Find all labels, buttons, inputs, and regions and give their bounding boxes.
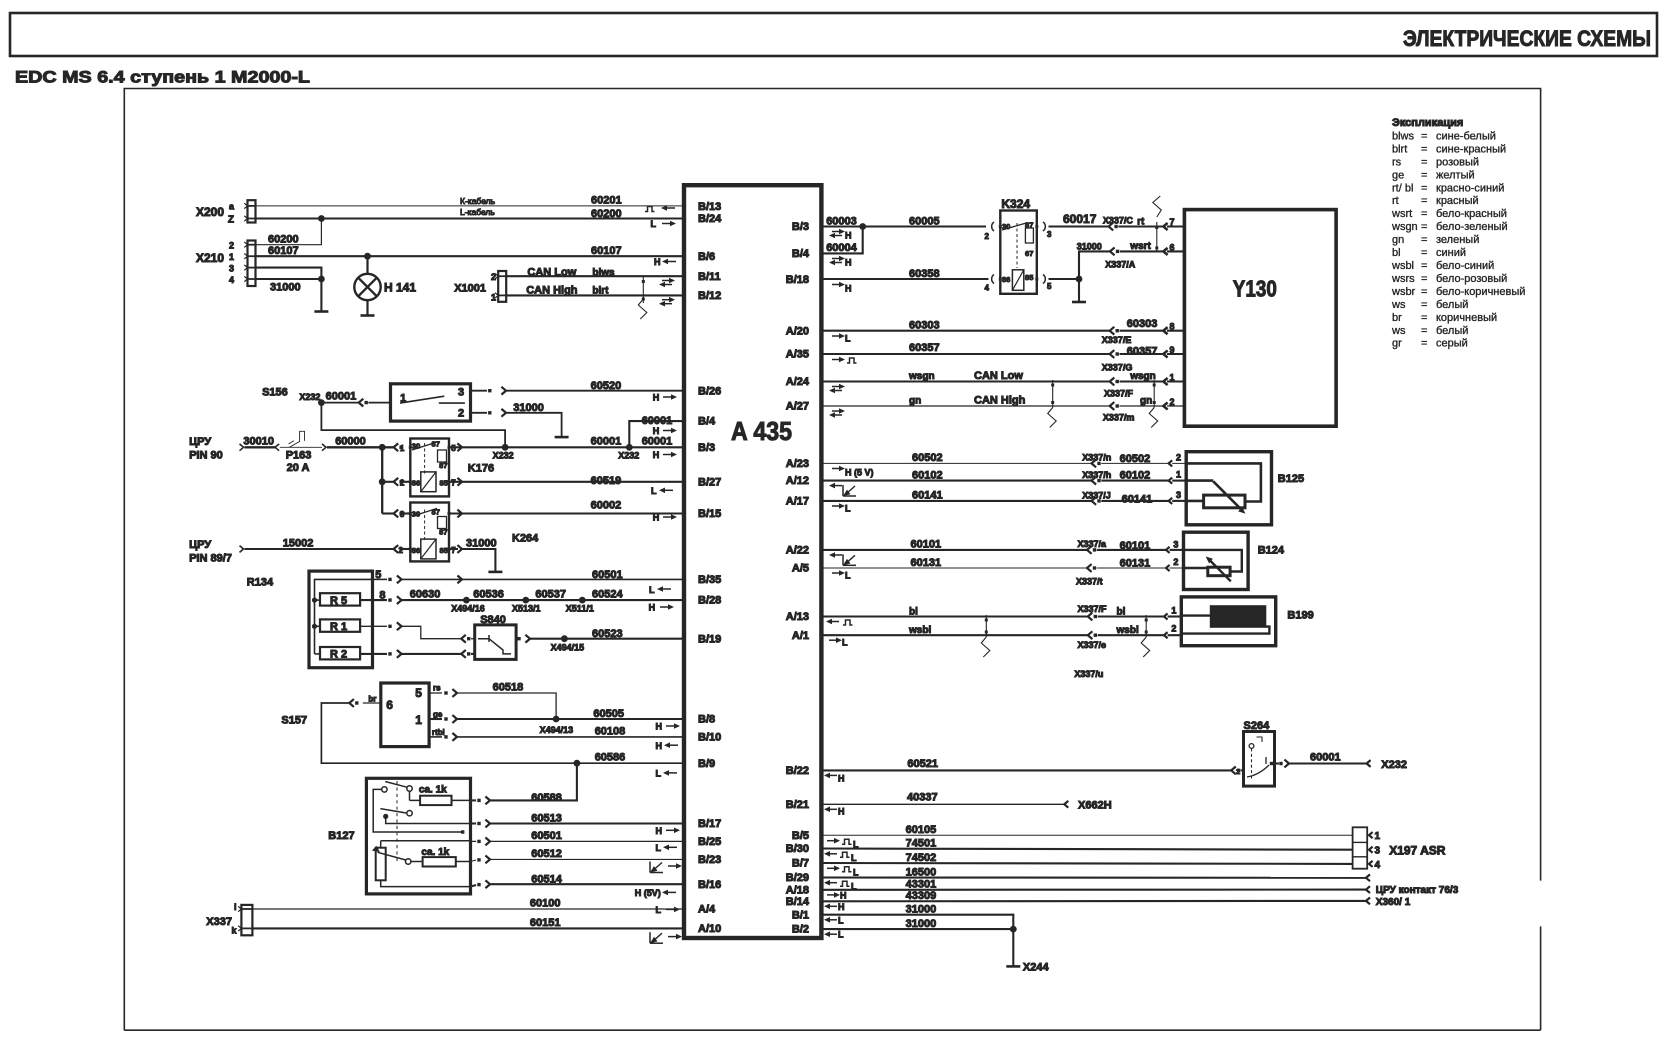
inline connector X337/e bbox=[1088, 631, 1093, 639]
svg-text:wsbl: wsbl bbox=[908, 625, 931, 636]
inline connector X337/n bbox=[1092, 459, 1097, 467]
svg-text:60536: 60536 bbox=[473, 589, 504, 601]
connector X210 bbox=[248, 241, 256, 287]
svg-text:R134: R134 bbox=[247, 577, 274, 589]
svg-text:blrt: blrt bbox=[592, 286, 609, 297]
svg-text:86: 86 bbox=[1002, 275, 1010, 284]
svg-text:K176: K176 bbox=[468, 463, 494, 475]
lamp H141 bbox=[354, 274, 380, 300]
svg-text:B/10: B/10 bbox=[698, 732, 721, 744]
wire 60588 B127 to node 60586 bbox=[471, 799, 477, 801]
svg-text:K324: K324 bbox=[1001, 197, 1030, 211]
svg-text:60502: 60502 bbox=[912, 452, 943, 464]
wire wsrt to Y130 pin 6 bbox=[1120, 250, 1164, 252]
svg-text:A/13: A/13 bbox=[786, 611, 809, 623]
svg-text:B/21: B/21 bbox=[786, 799, 809, 811]
svg-text:L: L bbox=[853, 867, 859, 877]
svg-text:wsbl: wsbl bbox=[1391, 260, 1414, 272]
heater B199 box bbox=[1181, 597, 1275, 646]
svg-text:B/16: B/16 bbox=[698, 879, 721, 891]
svg-text:EDC MS 6.4 ступень 1 M2000-L: EDC MS 6.4 ступень 1 M2000-L bbox=[15, 68, 310, 87]
signal icon B/30 right bbox=[830, 853, 837, 855]
svg-text:1: 1 bbox=[1170, 372, 1175, 382]
relay K324 coil bbox=[992, 275, 994, 284]
svg-text:wsbr: wsbr bbox=[1391, 286, 1416, 298]
svg-text:бело-коричневый: бело-коричневый bbox=[1436, 286, 1525, 298]
svg-text:L: L bbox=[651, 486, 657, 496]
signal icon A/20 right bbox=[832, 335, 840, 337]
signal icon B/1 right bbox=[830, 919, 837, 921]
svg-text:60518: 60518 bbox=[493, 681, 524, 693]
svg-text:L: L bbox=[651, 219, 657, 229]
svg-text:=: = bbox=[1421, 131, 1427, 143]
wire K324 85 to ground and 31000 bbox=[1049, 278, 1080, 280]
svg-text:B/9: B/9 bbox=[698, 758, 715, 770]
svg-text:=: = bbox=[1421, 325, 1427, 337]
svg-text:60357: 60357 bbox=[909, 342, 940, 354]
wire 60004 ECU B/4 to junction bbox=[822, 227, 863, 254]
svg-text:B/18: B/18 bbox=[786, 274, 809, 286]
svg-text:60001: 60001 bbox=[326, 391, 357, 403]
svg-text:wsbl: wsbl bbox=[1116, 625, 1139, 636]
wire relay bus to K264 contact bbox=[382, 512, 393, 514]
svg-text:bl: bl bbox=[1392, 247, 1401, 259]
ECU A435 left pin labels bbox=[698, 201, 722, 935]
svg-text:br: br bbox=[1392, 312, 1402, 324]
wire S156 junction to main 60001 wire bbox=[321, 403, 505, 448]
svg-text:gn: gn bbox=[1392, 234, 1404, 246]
svg-text:60131: 60131 bbox=[911, 557, 942, 569]
svg-text:rt: rt bbox=[1137, 217, 1145, 228]
sensor B124 box bbox=[1184, 532, 1249, 589]
svg-text:60001: 60001 bbox=[591, 436, 622, 448]
wire 31000 to Y130 pin6 wsrt bbox=[1079, 251, 1110, 279]
svg-text:60537: 60537 bbox=[535, 589, 566, 601]
svg-text:87: 87 bbox=[439, 461, 447, 470]
svg-text:60523: 60523 bbox=[592, 628, 623, 640]
svg-text:B/1: B/1 bbox=[792, 909, 809, 921]
svg-text:B/35: B/35 bbox=[698, 574, 721, 586]
svg-text:L: L bbox=[838, 930, 844, 940]
svg-text:B/8: B/8 bbox=[698, 714, 715, 726]
svg-text:CAN High: CAN High bbox=[974, 394, 1026, 406]
wire 60102 ECU A/12 to B125 pin1 bbox=[822, 480, 1092, 482]
svg-text:60358: 60358 bbox=[909, 268, 940, 280]
svg-text:=: = bbox=[1421, 221, 1427, 233]
signal icon A/22 right bbox=[835, 554, 842, 556]
svg-text:60102: 60102 bbox=[912, 469, 943, 481]
wire 60107 X210 pin1 to ECU B/6 bbox=[256, 255, 685, 257]
svg-text:86: 86 bbox=[412, 546, 420, 555]
svg-text:85: 85 bbox=[1025, 273, 1033, 282]
B127 potentiometer bbox=[376, 848, 386, 881]
svg-text:87: 87 bbox=[439, 528, 447, 537]
signal icon A/13 right bbox=[832, 621, 839, 623]
svg-text:60001: 60001 bbox=[1310, 752, 1341, 764]
svg-text:R 2: R 2 bbox=[330, 649, 347, 661]
svg-text:L: L bbox=[845, 504, 851, 514]
svg-text:H: H bbox=[649, 603, 656, 613]
svg-text:60004: 60004 bbox=[826, 242, 857, 254]
svg-text:X337/u: X337/u bbox=[1074, 669, 1103, 679]
wire relay bus vertical bbox=[381, 447, 383, 513]
wire wsbl ECU A/1 to B199 pin2 bbox=[822, 634, 1088, 636]
svg-text:H 141: H 141 bbox=[384, 281, 416, 295]
svg-text:60000: 60000 bbox=[335, 436, 366, 448]
svg-text:=: = bbox=[1421, 156, 1427, 168]
svg-text:1: 1 bbox=[1171, 606, 1176, 616]
svg-text:зеленый: зеленый bbox=[1436, 234, 1479, 246]
wire 60303 ECU A/20 to Y130 pin8 bbox=[822, 330, 1110, 332]
svg-text:X337/J: X337/J bbox=[1082, 490, 1111, 500]
node junction 60000 at relay bus bbox=[379, 444, 386, 451]
svg-text:20 A: 20 A bbox=[287, 462, 310, 474]
svg-text:X337/e: X337/e bbox=[1078, 640, 1107, 650]
svg-text:60141: 60141 bbox=[912, 490, 943, 502]
node junction R5 bus bbox=[312, 598, 317, 603]
node junction X511/1 bbox=[579, 597, 586, 604]
svg-text:gn: gn bbox=[1140, 395, 1152, 406]
svg-text:B125: B125 bbox=[1278, 473, 1304, 485]
svg-text:60001: 60001 bbox=[642, 415, 673, 427]
svg-text:2: 2 bbox=[1236, 767, 1240, 776]
svg-text:60141: 60141 bbox=[1122, 493, 1153, 505]
svg-text:rs: rs bbox=[1392, 156, 1402, 168]
svg-text:S264: S264 bbox=[1244, 720, 1271, 732]
svg-text:15002: 15002 bbox=[283, 538, 314, 550]
wire 60523 S840 to ECU B/19 bbox=[517, 637, 520, 640]
svg-text:L: L bbox=[851, 853, 857, 863]
signal icon B/18 right bbox=[832, 284, 840, 286]
ground symbol S156 bbox=[555, 436, 569, 439]
signal icon A/27 right bbox=[832, 410, 840, 412]
svg-text:60151: 60151 bbox=[530, 917, 561, 929]
svg-text:blrt: blrt bbox=[1392, 143, 1407, 155]
twisted pair marker CAN at Y130 bbox=[1153, 380, 1155, 408]
wire down to ground X244 bbox=[1012, 929, 1014, 966]
signal icon B/21 right bbox=[830, 808, 837, 810]
svg-text:wsrt: wsrt bbox=[1391, 208, 1412, 220]
svg-text:B/23: B/23 bbox=[698, 854, 721, 866]
signal icon B/4 right bbox=[832, 258, 840, 260]
svg-text:бело-красный: бело-красный bbox=[1436, 208, 1507, 220]
svg-text:2: 2 bbox=[1171, 624, 1176, 634]
wire 40337 ECU B/21 to X662H bbox=[822, 803, 1065, 805]
resistor R1 bbox=[320, 619, 360, 631]
node junction X210 ground branch bbox=[318, 276, 325, 283]
wire bl ECU A/13 to B199 pin1 bbox=[822, 615, 1088, 617]
svg-text:wsgn: wsgn bbox=[1391, 221, 1418, 233]
svg-text:60101: 60101 bbox=[911, 539, 942, 551]
svg-text:X337: X337 bbox=[206, 916, 232, 928]
wire 31000 K264 coil to ground bbox=[449, 548, 458, 550]
svg-text:31000: 31000 bbox=[466, 538, 497, 550]
svg-text:X360/ 1: X360/ 1 bbox=[1376, 897, 1411, 908]
svg-text:X232: X232 bbox=[299, 392, 320, 402]
wire 74501 ECU B/30 to X197 pin3 bbox=[822, 849, 1353, 850]
svg-text:wsgn: wsgn bbox=[1129, 371, 1156, 382]
svg-text:H: H bbox=[653, 426, 660, 436]
svg-text:H (5 V): H (5 V) bbox=[845, 468, 874, 478]
inline connector X337/E bbox=[1110, 327, 1115, 335]
svg-text:wsrs: wsrs bbox=[1391, 273, 1415, 285]
wire ge 60505 S157 to ECU B/8 bbox=[429, 718, 442, 720]
signal icon B/2 right bbox=[830, 933, 837, 935]
svg-text:60501: 60501 bbox=[531, 830, 562, 842]
svg-text:X513/1: X513/1 bbox=[512, 604, 541, 614]
wire 60514 B127 to ECU B/16 bbox=[470, 885, 476, 887]
signal icon B/5 right bbox=[827, 840, 835, 842]
svg-text:бело-розовый: бело-розовый bbox=[1436, 273, 1507, 285]
svg-text:60502: 60502 bbox=[1120, 453, 1151, 465]
svg-text:розовый: розовый bbox=[1436, 156, 1479, 168]
wire CAN High blrt X1001 pin1 to ECU B/12 bbox=[506, 294, 684, 296]
svg-text:B/4: B/4 bbox=[792, 248, 810, 260]
svg-text:rs: rs bbox=[433, 684, 441, 693]
svg-text:X197 ASR: X197 ASR bbox=[1389, 843, 1446, 857]
svg-text:H: H bbox=[845, 284, 852, 294]
wire 60512 B127 to ECU B/23 bbox=[470, 860, 476, 862]
svg-text:ws: ws bbox=[1391, 325, 1406, 337]
svg-text:X337/t: X337/t bbox=[1076, 577, 1103, 587]
switch S156 box bbox=[391, 384, 471, 421]
svg-text:60108: 60108 bbox=[595, 726, 626, 738]
R134 internal bus bbox=[315, 579, 373, 654]
svg-text:br: br bbox=[368, 695, 376, 704]
svg-text:X337/E: X337/E bbox=[1102, 335, 1132, 345]
svg-text:X337/F: X337/F bbox=[1078, 604, 1108, 614]
svg-text:=: = bbox=[1421, 273, 1427, 285]
svg-text:2: 2 bbox=[229, 241, 234, 251]
svg-text:B/7: B/7 bbox=[792, 858, 809, 870]
svg-text:4: 4 bbox=[229, 275, 234, 285]
B127 switch 1 bbox=[382, 787, 387, 792]
svg-text:ge: ge bbox=[433, 710, 443, 719]
svg-text:R 5: R 5 bbox=[330, 595, 347, 607]
svg-text:gn: gn bbox=[909, 395, 921, 406]
svg-text:3: 3 bbox=[1375, 846, 1381, 857]
svg-text:86: 86 bbox=[412, 478, 420, 487]
signal icon A/1 right bbox=[829, 639, 837, 641]
svg-text:60201: 60201 bbox=[591, 195, 622, 207]
signal icon A/5 right bbox=[832, 572, 840, 574]
svg-text:X337/m: X337/m bbox=[1103, 412, 1135, 422]
svg-text:B/5: B/5 bbox=[792, 830, 809, 842]
svg-text:H: H bbox=[838, 773, 845, 783]
sensor B125 box bbox=[1186, 452, 1271, 525]
svg-text:L: L bbox=[842, 638, 848, 648]
svg-text:=: = bbox=[1421, 286, 1427, 298]
svg-text:B/17: B/17 bbox=[698, 818, 721, 830]
svg-text:wsgn: wsgn bbox=[908, 371, 935, 382]
svg-text:A/20: A/20 bbox=[786, 325, 809, 337]
svg-text:wsrt: wsrt bbox=[1129, 241, 1151, 252]
svg-text:60501: 60501 bbox=[592, 569, 623, 581]
svg-text:X494/13: X494/13 bbox=[540, 725, 574, 735]
signal icon A/18 right bbox=[827, 894, 835, 896]
svg-text:1: 1 bbox=[229, 252, 234, 262]
wire 43301 ECU A/18 to TsRU kontakt 76/3 bbox=[822, 889, 1366, 891]
svg-text:X494/16: X494/16 bbox=[451, 604, 485, 614]
svg-text:31000: 31000 bbox=[906, 904, 937, 916]
wire 60201 K-cable X200a to ECU B/13 bbox=[256, 205, 685, 207]
svg-text:X244: X244 bbox=[1023, 962, 1050, 974]
svg-text:A/1: A/1 bbox=[792, 630, 809, 642]
svg-text:7: 7 bbox=[1170, 217, 1175, 227]
svg-text:B/26: B/26 bbox=[698, 385, 721, 397]
ground symbol H141 bbox=[361, 314, 375, 317]
svg-text:3: 3 bbox=[458, 387, 464, 399]
inline connector X337/m bbox=[1110, 402, 1115, 410]
signal icon B/22 right bbox=[830, 774, 837, 776]
node junction on wire 60107 bbox=[364, 253, 371, 260]
svg-text:16500: 16500 bbox=[906, 866, 937, 878]
svg-text:31000: 31000 bbox=[906, 918, 937, 930]
svg-text:Y130: Y130 bbox=[1233, 276, 1277, 302]
svg-text:60521: 60521 bbox=[907, 758, 938, 770]
relay K324 box bbox=[1000, 211, 1037, 294]
svg-text:2: 2 bbox=[1176, 452, 1181, 462]
svg-text:3: 3 bbox=[229, 264, 234, 274]
svg-text:bl: bl bbox=[1117, 606, 1126, 617]
twisted pair marker CAN wires bbox=[642, 277, 644, 303]
svg-text:белый: белый bbox=[1436, 299, 1468, 311]
svg-text:60303: 60303 bbox=[1127, 318, 1158, 330]
svg-text:=: = bbox=[1421, 338, 1427, 350]
node junction 60001 branch to B/4 bbox=[626, 444, 633, 451]
svg-text:B/28: B/28 bbox=[698, 595, 721, 607]
svg-text:=: = bbox=[1421, 247, 1427, 259]
wire 30010 from TsRU PIN 90 bbox=[240, 444, 244, 451]
node junction 60586/60588 bbox=[574, 760, 581, 767]
wire 60001 S156 to junction bbox=[321, 402, 358, 404]
svg-text:bl: bl bbox=[909, 606, 918, 617]
switch S156 contact arm bbox=[400, 396, 444, 403]
svg-text:B/4: B/4 bbox=[698, 416, 716, 428]
ground symbol X210 bbox=[314, 310, 328, 313]
svg-text:31000: 31000 bbox=[513, 402, 544, 414]
svg-text:=: = bbox=[1421, 195, 1427, 207]
svg-text:B/19: B/19 bbox=[698, 633, 721, 645]
svg-text:60513: 60513 bbox=[531, 813, 562, 825]
svg-text:B/6: B/6 bbox=[698, 251, 715, 263]
svg-text:бело-синий: бело-синий bbox=[1436, 260, 1494, 272]
wire 60200 branch down to X210 pin2 bbox=[256, 219, 322, 245]
svg-text:43309: 43309 bbox=[906, 890, 937, 902]
signal icon B/3 right bbox=[832, 231, 840, 233]
svg-text:S840: S840 bbox=[480, 614, 506, 626]
svg-text:CAN Low: CAN Low bbox=[527, 266, 576, 278]
twisted pair marker bl/wsbl at B199 bbox=[1145, 615, 1147, 637]
ground symbol X244 bbox=[1006, 965, 1020, 968]
wire 43309 ECU B/14 to X360/1 bbox=[822, 900, 1366, 902]
wire 60000 fuse to relay K176 bbox=[322, 444, 326, 451]
svg-text:3: 3 bbox=[1173, 539, 1178, 549]
connector X200 bbox=[248, 200, 256, 222]
wire R1 to S840 bbox=[360, 625, 387, 627]
signal icon B/7 right bbox=[827, 867, 835, 869]
heater B199 element bbox=[1211, 606, 1265, 626]
svg-text:2: 2 bbox=[458, 408, 464, 420]
svg-text:L: L bbox=[649, 585, 655, 595]
svg-text:B/24: B/24 bbox=[698, 213, 722, 225]
svg-text:H: H bbox=[653, 393, 660, 403]
signal icon A/35 right bbox=[832, 359, 840, 361]
svg-text:60303: 60303 bbox=[909, 319, 940, 331]
inline connector X337/P bbox=[1088, 613, 1093, 621]
B127 dashed link bbox=[396, 781, 398, 861]
svg-text:CAN High: CAN High bbox=[526, 285, 578, 297]
svg-text:30010: 30010 bbox=[243, 436, 274, 448]
svg-text:3: 3 bbox=[1047, 230, 1052, 239]
svg-text:X200: X200 bbox=[196, 205, 224, 219]
svg-text:B/3: B/3 bbox=[698, 442, 715, 454]
svg-text:X232: X232 bbox=[493, 450, 514, 460]
relay K264 box bbox=[410, 503, 449, 562]
ground symbol K264 bbox=[488, 571, 502, 574]
svg-text:X232: X232 bbox=[1381, 759, 1407, 771]
node junction on wire 60200 bbox=[318, 215, 325, 222]
node junction coil feed bbox=[379, 478, 386, 485]
inline connector X337/G bbox=[1110, 350, 1115, 358]
svg-text:X1001: X1001 bbox=[454, 283, 486, 295]
wire 60501 B127 to ECU B/25 bbox=[471, 840, 477, 842]
svg-text:60107: 60107 bbox=[268, 245, 299, 257]
svg-text:B/13: B/13 bbox=[698, 201, 721, 213]
svg-text:B/27: B/27 bbox=[698, 476, 721, 488]
wire 60005 junction to relay K324 bbox=[863, 225, 986, 227]
svg-text:60101: 60101 bbox=[1120, 540, 1151, 552]
svg-text:3: 3 bbox=[1176, 490, 1181, 500]
node junction X513/1 bbox=[522, 597, 529, 604]
svg-text:X210: X210 bbox=[196, 251, 224, 265]
wire 60630/60536/60537/60524 R134 pin8 to ECU B/28 bbox=[360, 599, 387, 601]
svg-text:60512: 60512 bbox=[531, 848, 562, 860]
svg-text:60005: 60005 bbox=[909, 215, 940, 227]
svg-text:A/23: A/23 bbox=[786, 458, 809, 470]
svg-text:X337/G: X337/G bbox=[1102, 363, 1133, 373]
B127 switch 2 bbox=[383, 814, 388, 819]
svg-text:60505: 60505 bbox=[593, 708, 624, 720]
wire br S157 to ECU B/9 via 60586 bbox=[363, 702, 381, 704]
svg-text:желтый: желтый bbox=[1436, 169, 1475, 181]
signal icon B/13 bbox=[645, 207, 655, 212]
svg-text:X337/A: X337/A bbox=[1105, 260, 1136, 270]
svg-text:B/22: B/22 bbox=[786, 765, 809, 777]
wire 60002 K264 to ECU B/15 bbox=[449, 512, 487, 514]
wire lamp H141 to ground bbox=[366, 300, 368, 315]
resistor R5 bbox=[320, 593, 360, 605]
svg-text:60102: 60102 bbox=[1120, 469, 1151, 481]
svg-text:X337/a: X337/a bbox=[1078, 539, 1108, 549]
svg-text:=: = bbox=[1421, 208, 1427, 220]
pressure switch S264 box bbox=[1231, 766, 1236, 774]
svg-text:ЭЛЕКТРИЧЕСКИЕ СХЕМЫ: ЭЛЕКТРИЧЕСКИЕ СХЕМЫ bbox=[1403, 26, 1651, 51]
wire 60101 ECU A/22 to B124 pin3 bbox=[822, 549, 1087, 551]
node junction X494/16 bbox=[463, 597, 470, 604]
svg-text:60200: 60200 bbox=[591, 208, 622, 220]
svg-text:B/29: B/29 bbox=[786, 872, 809, 884]
svg-text:=: = bbox=[1421, 234, 1427, 246]
svg-text:=: = bbox=[1421, 169, 1427, 181]
svg-text:H (5V): H (5V) bbox=[635, 888, 661, 898]
svg-text:H: H bbox=[656, 826, 663, 836]
svg-text:1: 1 bbox=[1375, 831, 1381, 842]
svg-text:=: = bbox=[1421, 312, 1427, 324]
switch S840 contacts bbox=[478, 639, 511, 654]
svg-text:74502: 74502 bbox=[906, 852, 937, 864]
svg-text:B127: B127 bbox=[328, 830, 354, 842]
